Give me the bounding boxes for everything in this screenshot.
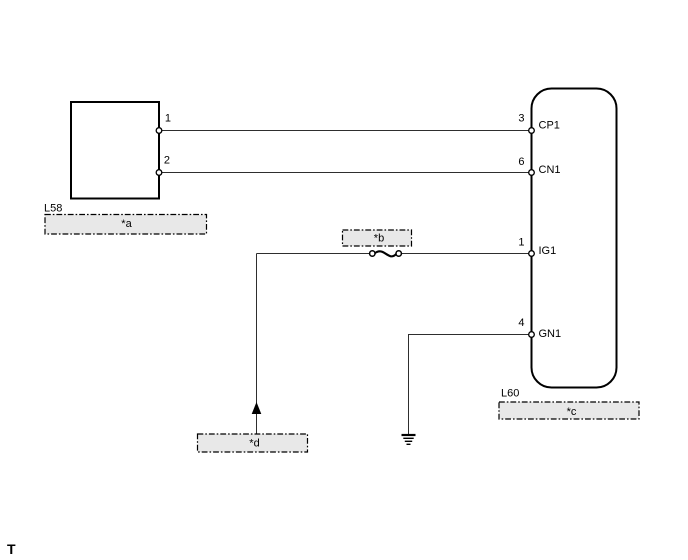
svg-text:6: 6: [518, 156, 524, 168]
svg-text:T: T: [7, 541, 16, 557]
svg-text:CP1: CP1: [539, 120, 560, 132]
svg-text:1: 1: [165, 113, 171, 125]
svg-text:IG1: IG1: [539, 245, 557, 257]
svg-text:3: 3: [518, 113, 524, 125]
svg-text:*d: *d: [249, 438, 259, 450]
svg-text:*c: *c: [567, 406, 577, 418]
svg-text:2: 2: [164, 155, 170, 167]
svg-text:*a: *a: [121, 218, 132, 230]
svg-text:*b: *b: [374, 233, 384, 245]
svg-text:1: 1: [518, 237, 524, 249]
svg-text:4: 4: [518, 317, 524, 329]
svg-text:CN1: CN1: [539, 164, 561, 176]
svg-text:GN1: GN1: [539, 328, 562, 340]
svg-text:L58: L58: [44, 203, 62, 215]
svg-text:L60: L60: [501, 388, 519, 400]
